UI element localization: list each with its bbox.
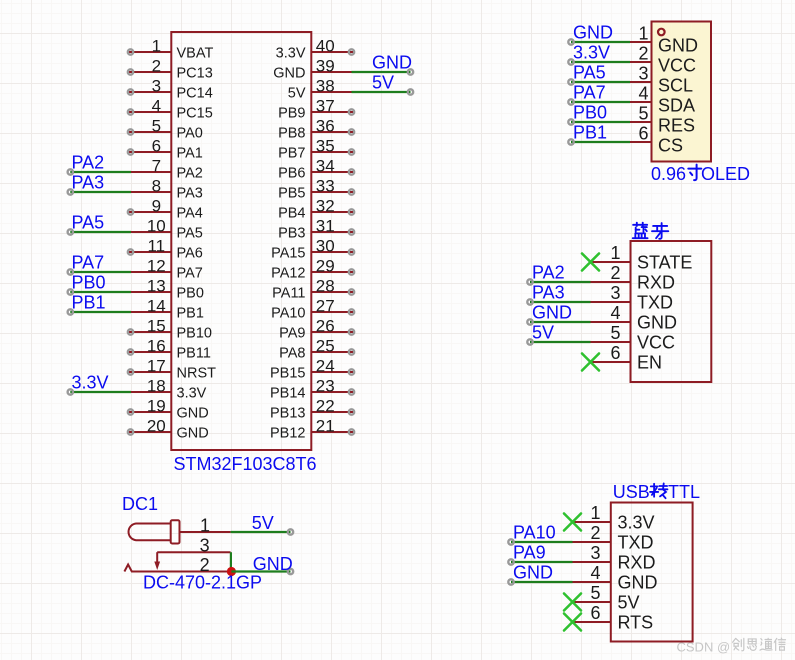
svg-text:1: 1	[610, 243, 620, 263]
svg-text:23: 23	[316, 377, 335, 396]
pin 15 PB10 (left)	[128, 331, 171, 333]
svg-text:5: 5	[590, 583, 600, 603]
part name 蓝牙 (Bluetooth)	[633, 223, 648, 239]
svg-text:GND: GND	[532, 303, 572, 323]
svg-text:SDA: SDA	[658, 96, 695, 116]
svg-text:19: 19	[147, 397, 166, 416]
DC jack collar	[171, 520, 180, 543]
pin 5 PA0 (left)	[128, 131, 171, 133]
wire net PA2 to BT pin 2	[530, 281, 591, 283]
svg-text:5: 5	[638, 104, 648, 124]
svg-text:PA8: PA8	[279, 345, 305, 361]
svg-text:RTS: RTS	[618, 613, 654, 633]
pin 23 PB14 (right)	[311, 391, 354, 393]
wire net PA9 to USB-TTL pin 3	[511, 561, 573, 563]
pad PA2 wire end	[527, 279, 532, 284]
BT pin 3 TXD	[591, 301, 631, 303]
svg-text:3.3V: 3.3V	[177, 385, 207, 401]
OLED pin 5 RES	[630, 121, 652, 123]
USB-TTL pin 2 TXD	[573, 541, 611, 543]
svg-text:PA11: PA11	[272, 285, 305, 301]
svg-text:39: 39	[316, 57, 335, 76]
svg-text:GND: GND	[637, 313, 677, 333]
svg-text:STM32F103C8T6: STM32F103C8T6	[174, 454, 317, 474]
svg-text:GND: GND	[658, 36, 698, 56]
pin 2 PC13 (left)	[128, 71, 171, 73]
pin 11 pad	[128, 249, 133, 254]
svg-text:DC-470-2.1GP: DC-470-2.1GP	[143, 573, 262, 593]
pin 22 PB13 (right)	[311, 411, 354, 413]
svg-text:PB4: PB4	[278, 205, 305, 221]
pin 28 PA11 (right)	[311, 291, 354, 293]
svg-text:18: 18	[147, 377, 166, 396]
svg-text:PB10: PB10	[177, 325, 212, 341]
wire net 3.3V to OLED pin 2	[571, 61, 630, 63]
wire net PA3 to pin 8	[70, 191, 131, 193]
pin 38 5V (right)	[311, 91, 351, 93]
pin 21 pad	[349, 429, 354, 434]
pin 34 PB6 (right)	[311, 171, 354, 173]
pad at end of 5V wire	[408, 89, 413, 94]
no-connect flag pin 6	[564, 614, 581, 631]
svg-text:PA3: PA3	[532, 283, 565, 303]
svg-text:PA2: PA2	[532, 263, 565, 283]
pin 30 PA15 (right)	[311, 251, 354, 253]
svg-text:37: 37	[316, 97, 335, 116]
pin 25 PA8 (right)	[311, 351, 354, 353]
wire net GND to OLED pin 1	[571, 41, 630, 43]
svg-text:1: 1	[638, 24, 648, 44]
pin 19 GND (left)	[128, 411, 171, 413]
svg-text:7: 7	[152, 157, 161, 176]
wire net PA2 to pin 7	[70, 171, 131, 173]
BT pin 1 STATE	[591, 261, 631, 263]
wire net PB1 to OLED pin 6	[571, 141, 630, 143]
pin 35 pad	[349, 149, 354, 154]
svg-text:24: 24	[316, 357, 335, 376]
pad PA7 wire end	[568, 99, 573, 104]
pad at end of PA5 wire	[68, 229, 73, 234]
pin 1 pad	[128, 49, 133, 54]
svg-text:27: 27	[316, 297, 335, 316]
pad PB1 wire end	[568, 139, 573, 144]
OLED pin 2 VCC	[630, 61, 652, 63]
no-connect flag pin 1	[564, 514, 581, 531]
svg-text:PA7: PA7	[72, 253, 105, 273]
svg-text:9: 9	[152, 197, 161, 216]
svg-text:PB11: PB11	[177, 345, 211, 361]
svg-text:5V: 5V	[288, 85, 306, 101]
pin 32 PB4 (right)	[311, 211, 354, 213]
pin 13 PB0 (left)	[131, 291, 171, 293]
pad at end of GND wire	[408, 69, 413, 74]
pin 22 pad	[349, 409, 354, 414]
svg-text:SCL: SCL	[658, 76, 693, 96]
pin 16 pad	[128, 349, 133, 354]
USB-TTL module body	[611, 503, 693, 642]
BT pin 2 RXD	[591, 281, 631, 283]
svg-text:EN: EN	[637, 353, 662, 373]
DC1 pin 3 (switch)	[157, 551, 230, 553]
pin 24 pad	[349, 369, 354, 374]
svg-text:10: 10	[147, 217, 166, 236]
pad PB0 wire end	[568, 119, 573, 124]
pin 14 PB1 (left)	[131, 311, 171, 313]
USB-TTL pin 4 GND	[573, 581, 611, 583]
pin 37 PB9 (right)	[311, 111, 354, 113]
svg-text:8: 8	[152, 177, 161, 196]
pin 28 pad	[349, 289, 354, 294]
pin 33 PB5 (right)	[311, 191, 354, 193]
svg-text:PA3: PA3	[72, 173, 105, 193]
svg-text:GND: GND	[273, 65, 305, 81]
svg-text:31: 31	[316, 217, 335, 236]
svg-text:GND: GND	[513, 563, 553, 583]
svg-text:25: 25	[316, 337, 335, 356]
pin 30 pad	[349, 249, 354, 254]
svg-text:3.3V: 3.3V	[72, 373, 109, 393]
svg-text:2: 2	[610, 263, 620, 283]
OLED module body	[652, 22, 712, 162]
svg-text:DC1: DC1	[122, 494, 158, 514]
wire pin3 to junction	[230, 552, 232, 571]
pin 8 PA3 (left)	[131, 191, 171, 193]
svg-text:PA0: PA0	[177, 125, 203, 141]
svg-text:35: 35	[316, 137, 335, 156]
svg-text:RXD: RXD	[637, 273, 675, 293]
svg-text:PA2: PA2	[177, 165, 203, 181]
USB-TTL pin 5 5V	[573, 601, 611, 603]
svg-text:GND: GND	[177, 425, 209, 441]
wire net PB1 to pin 14	[70, 311, 131, 313]
svg-text:1: 1	[152, 37, 161, 56]
pin 9 pad	[128, 209, 133, 214]
pin 31 pad	[349, 229, 354, 234]
svg-text:2: 2	[638, 44, 648, 64]
svg-text:4: 4	[152, 97, 161, 116]
svg-text:3: 3	[638, 64, 648, 84]
svg-text:38: 38	[316, 77, 335, 96]
svg-text:28: 28	[316, 277, 335, 296]
BT pin 4 GND	[591, 321, 631, 323]
pin 3 PC14 (left)	[128, 91, 171, 93]
pad 5V wire end	[288, 529, 293, 534]
pin 26 PA9 (right)	[311, 331, 354, 333]
pad PA5 wire end	[568, 79, 573, 84]
pin 20 pad	[128, 429, 133, 434]
svg-text:5: 5	[152, 117, 161, 136]
svg-text:PC14: PC14	[177, 85, 213, 101]
svg-text:1: 1	[200, 516, 210, 536]
pad at end of PA7 wire	[68, 269, 73, 274]
svg-text:PB9: PB9	[278, 105, 305, 121]
svg-text:PB13: PB13	[270, 405, 305, 421]
pin 6 PA1 (left)	[128, 151, 171, 153]
svg-text:RES: RES	[658, 116, 695, 136]
pin 40 pad	[349, 49, 354, 54]
svg-text:PB3: PB3	[278, 225, 305, 241]
svg-text:4: 4	[638, 84, 648, 104]
wire net PA5 to OLED pin 3	[571, 81, 630, 83]
svg-text:17: 17	[147, 357, 166, 376]
svg-text:5V: 5V	[532, 323, 554, 343]
svg-text:3.3V: 3.3V	[573, 43, 610, 63]
pin 27 PA10 (right)	[311, 311, 354, 313]
svg-text:PB0: PB0	[177, 285, 204, 301]
svg-text:USB: USB	[613, 482, 650, 502]
pin 27 pad	[349, 309, 354, 314]
pad at end of PB0 wire	[68, 289, 73, 294]
wire net PA10 to USB-TTL pin 2	[511, 541, 573, 543]
svg-text:PC13: PC13	[177, 65, 213, 81]
pin 11 PA6 (left)	[128, 251, 171, 253]
pin 10 PA5 (left)	[131, 231, 171, 233]
svg-text:2: 2	[590, 523, 600, 543]
pin 2 pad	[128, 69, 133, 74]
pin 39 GND (right)	[311, 71, 351, 73]
wire net GND to USB-TTL pin 4	[511, 581, 573, 583]
svg-text:13: 13	[147, 277, 166, 296]
Bluetooth module body	[631, 241, 712, 382]
pin 21 PB12 (right)	[311, 431, 354, 433]
pad at end of PA2 wire	[68, 169, 73, 174]
svg-text:16: 16	[147, 337, 166, 356]
pin-1 marker circle	[658, 29, 665, 36]
svg-text:32: 32	[316, 197, 335, 216]
pad at end of PA3 wire	[68, 189, 73, 194]
svg-text:TTL: TTL	[668, 482, 700, 502]
pin 29 PA12 (right)	[311, 271, 354, 273]
svg-text:PB6: PB6	[278, 165, 305, 181]
BT pin 5 VCC	[591, 341, 631, 343]
svg-text:PB7: PB7	[278, 145, 305, 161]
svg-text:CS: CS	[658, 136, 683, 156]
pin 37 pad	[349, 109, 354, 114]
wire net 5V from DC1 pin 1	[231, 531, 291, 533]
pin 35 PB7 (right)	[311, 151, 354, 153]
MCU STM32F103C8T6 symbol body	[171, 32, 311, 450]
pin 23 pad	[349, 389, 354, 394]
svg-text:PA1: PA1	[177, 145, 203, 161]
pin 19 pad	[128, 409, 133, 414]
pin 7 PA2 (left)	[131, 171, 171, 173]
wire net 3.3V to pin 18	[70, 391, 131, 393]
svg-text:TXD: TXD	[637, 293, 673, 313]
pad PA10 wire end	[508, 539, 513, 544]
svg-text:VBAT: VBAT	[177, 45, 214, 61]
svg-text:GND: GND	[253, 554, 293, 574]
USB-TTL pin 3 RXD	[573, 561, 611, 563]
svg-text:5V: 5V	[252, 513, 274, 533]
svg-text:PB0: PB0	[573, 103, 607, 123]
svg-text:RXD: RXD	[618, 553, 656, 573]
svg-text:6: 6	[152, 137, 161, 156]
OLED pin 6 CS	[630, 141, 652, 143]
pad GND wire end	[508, 579, 513, 584]
svg-text:GND: GND	[372, 53, 412, 73]
svg-text:PA4: PA4	[177, 205, 203, 221]
junction	[227, 567, 236, 576]
svg-text:6: 6	[638, 124, 648, 144]
pad GND wire end	[568, 39, 573, 44]
svg-text:PA10: PA10	[271, 305, 305, 321]
pin 36 PB8 (right)	[311, 131, 354, 133]
svg-text:6: 6	[590, 603, 600, 623]
OLED pin 4 SDA	[630, 101, 652, 103]
pad GND wire end	[288, 569, 293, 574]
svg-text:29: 29	[316, 257, 335, 276]
svg-text:PA7: PA7	[177, 265, 203, 281]
svg-text:5: 5	[610, 323, 620, 343]
pin 4 PC15 (left)	[128, 111, 171, 113]
svg-text:PB15: PB15	[270, 365, 305, 381]
pin 26 pad	[349, 329, 354, 334]
svg-text:PB1: PB1	[573, 123, 607, 143]
svg-text:PA5: PA5	[573, 63, 606, 83]
pin 4 pad	[128, 109, 133, 114]
svg-text:12: 12	[147, 257, 166, 276]
pin 18 3.3V (left)	[131, 391, 171, 393]
svg-text:PA5: PA5	[177, 225, 203, 241]
pad PA9 wire end	[508, 559, 513, 564]
svg-text:PA6: PA6	[177, 245, 203, 261]
svg-text:11: 11	[147, 237, 165, 256]
pin 1 VBAT (left)	[128, 51, 171, 53]
no-connect flag pin 6	[582, 354, 599, 371]
svg-text:VCC: VCC	[637, 333, 675, 353]
pin 16 PB11 (left)	[128, 351, 171, 353]
svg-text:3: 3	[590, 543, 600, 563]
svg-text:3: 3	[200, 536, 210, 556]
svg-text:PB12: PB12	[270, 425, 305, 441]
svg-text:22: 22	[316, 397, 335, 416]
svg-text:PA15: PA15	[271, 245, 305, 261]
pin 5 pad	[128, 129, 133, 134]
svg-text:PA7: PA7	[573, 83, 606, 103]
pad GND wire end	[527, 319, 532, 324]
wire net GND from DC1 pin 2	[231, 570, 290, 572]
wire net PB0 to pin 13	[70, 291, 131, 293]
pin 12 PA7 (left)	[131, 271, 171, 273]
wire net PA7 to OLED pin 4	[571, 101, 630, 103]
svg-text:5V: 5V	[618, 593, 640, 613]
pin 6 pad	[128, 149, 133, 154]
svg-text:4: 4	[610, 303, 620, 323]
OLED pin 3 SCL	[630, 81, 652, 83]
svg-text:PB14: PB14	[270, 385, 305, 401]
pin 17 pad	[128, 369, 133, 374]
wire net PA3 to BT pin 3	[530, 301, 591, 303]
svg-text:STATE: STATE	[637, 253, 692, 273]
svg-text:2: 2	[152, 57, 161, 76]
svg-text:21: 21	[316, 417, 335, 436]
pin 24 PB15 (right)	[311, 371, 354, 373]
BT pin 6 EN	[591, 361, 631, 363]
svg-text:PB1: PB1	[177, 305, 204, 321]
pin 33 pad	[349, 189, 354, 194]
svg-text:30: 30	[316, 237, 335, 256]
pad at end of PB1 wire	[68, 309, 73, 314]
USB-TTL pin 1 3.3V	[573, 521, 611, 523]
svg-text:15: 15	[147, 317, 166, 336]
svg-text:VCC: VCC	[658, 56, 696, 76]
svg-text:4: 4	[590, 563, 600, 583]
svg-text:CSDN @: CSDN @	[677, 639, 731, 654]
wire net GND from pin 39	[352, 71, 411, 73]
DC1 pin 2 (sleeve) with spring contact	[124, 565, 230, 572]
svg-text:6: 6	[610, 343, 620, 363]
svg-text:TXD: TXD	[618, 533, 654, 553]
svg-text:14: 14	[147, 297, 166, 316]
pad 3.3V wire end	[568, 59, 573, 64]
svg-text:0.96: 0.96	[651, 164, 686, 184]
svg-text:GND: GND	[573, 23, 613, 43]
wire net GND to BT pin 4	[530, 321, 591, 323]
pin 40 3.3V (right)	[311, 51, 354, 53]
svg-text:PA5: PA5	[72, 213, 105, 233]
svg-text:GND: GND	[177, 405, 209, 421]
no-connect flag pin 5	[564, 594, 581, 611]
pin 20 GND (left)	[128, 431, 171, 433]
svg-text:3.3V: 3.3V	[618, 513, 655, 533]
svg-text:PA12: PA12	[271, 265, 305, 281]
svg-text:PB1: PB1	[72, 293, 106, 313]
svg-text:33: 33	[316, 177, 335, 196]
wire net PB0 to OLED pin 5	[571, 121, 630, 123]
svg-text:34: 34	[316, 157, 335, 176]
svg-text:26: 26	[316, 317, 335, 336]
pin 17 NRST (left)	[128, 371, 171, 373]
svg-text:PA3: PA3	[177, 185, 203, 201]
svg-text:3: 3	[152, 77, 161, 96]
svg-text:PA9: PA9	[279, 325, 305, 341]
OLED pin 1 GND	[630, 41, 652, 43]
USB-TTL pin 6 RTS	[573, 621, 611, 623]
wire net PA5 to pin 10	[70, 231, 131, 233]
wire net 5V to BT pin 5	[530, 341, 591, 343]
no-connect flag pin 1	[582, 254, 599, 271]
DC jack barrel	[129, 524, 171, 541]
svg-text:1: 1	[590, 503, 600, 523]
svg-text:PA2: PA2	[72, 153, 105, 173]
svg-text:NRST: NRST	[177, 365, 217, 381]
svg-text:GND: GND	[618, 573, 658, 593]
svg-text:PB8: PB8	[278, 125, 305, 141]
pin 15 pad	[128, 329, 133, 334]
svg-text:PB0: PB0	[72, 273, 106, 293]
svg-text:36: 36	[316, 117, 335, 136]
svg-text:20: 20	[147, 417, 166, 436]
DC1 pin 1 (tip)	[180, 531, 231, 533]
svg-text:3.3V: 3.3V	[276, 45, 306, 61]
pin 32 pad	[349, 209, 354, 214]
svg-text:PB5: PB5	[278, 185, 305, 201]
pin 34 pad	[349, 169, 354, 174]
pin 3 pad	[128, 89, 133, 94]
svg-text:PA9: PA9	[513, 543, 546, 563]
pin 25 pad	[349, 349, 354, 354]
pad PA3 wire end	[527, 299, 532, 304]
wire net PA7 to pin 12	[70, 271, 131, 273]
svg-text:40: 40	[316, 37, 335, 56]
pin 9 PA4 (left)	[128, 211, 171, 213]
svg-text:3: 3	[610, 283, 620, 303]
pin 36 pad	[349, 129, 354, 134]
wire net 5V from pin 38	[352, 91, 411, 93]
pin 31 PB3 (right)	[311, 231, 354, 233]
pad at end of 3.3V wire	[68, 389, 73, 394]
pin 29 pad	[349, 269, 354, 274]
